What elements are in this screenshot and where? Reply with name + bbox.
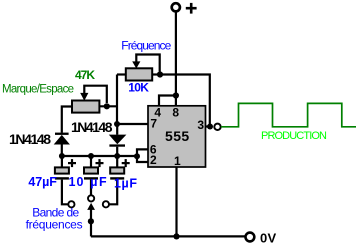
capacitor C1 47uF <box>61 156 63 168</box>
wiper loop wire 47K <box>84 86 107 103</box>
wire pin 7 <box>117 123 148 125</box>
capacitor C2 10uF <box>90 156 92 168</box>
wire 47K right lead <box>99 105 117 107</box>
wire 10K left branch down <box>116 75 118 125</box>
wire pin 3 stub <box>206 125 211 127</box>
svg-text:8: 8 <box>172 106 179 120</box>
wire pin 4 loop <box>159 96 176 107</box>
wire capacitor rail <box>62 155 137 157</box>
Vcc rail wire <box>175 12 177 107</box>
svg-text:fréquences: fréquences <box>26 217 83 231</box>
wiper arrow 47K <box>80 93 88 101</box>
svg-text:47µF: 47µF <box>28 175 57 189</box>
power terminal + <box>172 3 180 11</box>
junction dot cap C3 <box>114 153 120 159</box>
output terminal <box>214 124 220 130</box>
svg-text:3: 3 <box>197 118 204 132</box>
svg-text:10K: 10K <box>128 81 149 95</box>
junction dot cap C2 <box>88 153 94 159</box>
svg-text:0V: 0V <box>260 231 277 246</box>
junction dot pins 2-6 <box>134 153 140 159</box>
junction dot selector <box>88 218 94 224</box>
output waveform <box>221 103 356 126</box>
wire 10K left lead <box>117 73 126 75</box>
svg-text:47K: 47K <box>75 68 95 82</box>
plus sign C3 <box>122 159 130 167</box>
junction dot rail/pin4 <box>173 92 179 98</box>
wire pin 1 <box>175 167 177 236</box>
selector contact circle B <box>88 195 94 201</box>
svg-text:1: 1 <box>174 154 181 168</box>
0V terminal <box>246 233 255 242</box>
selector contact circle C <box>103 201 109 207</box>
wire 10K to pin 3 <box>160 75 210 127</box>
wire pin 6 / pin 2 link <box>137 149 148 162</box>
svg-text:555: 555 <box>165 128 189 144</box>
wiper arrow 10K <box>132 61 140 68</box>
capacitor C3 1uF <box>116 156 118 168</box>
svg-text:10: 10 <box>69 175 84 189</box>
svg-text:7: 7 <box>150 117 157 131</box>
diode D2 1N4148 <box>116 124 118 135</box>
plus sign C1 <box>68 159 76 167</box>
junction dot pin7 node <box>114 121 120 127</box>
svg-text:Fréquence: Fréquence <box>121 39 171 53</box>
potentiometer P2 10K body <box>126 68 152 80</box>
junction dot pin 1 / 0V <box>173 233 179 239</box>
selector contact circle A <box>68 201 74 207</box>
wire 10K right lead <box>152 73 160 75</box>
svg-text:2: 2 <box>150 153 157 167</box>
svg-text:1µF: 1µF <box>114 176 137 190</box>
svg-text:PRODUCTION: PRODUCTION <box>261 130 327 142</box>
junction dot cap C1 <box>59 153 65 159</box>
op-amp timer IC U1 555 <box>148 106 206 167</box>
junction dot 10K wiper <box>157 71 163 77</box>
svg-text:µF: µF <box>90 175 107 189</box>
svg-text:1N4148: 1N4148 <box>71 119 113 135</box>
diode D1 1N4148 <box>55 133 69 135</box>
junction dot pin 3 <box>207 124 213 130</box>
wiper loop wire 10K <box>136 55 159 72</box>
svg-text:1N4148: 1N4148 <box>9 131 51 147</box>
wire 0V rail <box>91 235 245 237</box>
potentiometer P1 47K body <box>72 101 99 113</box>
junction dot 47K wiper <box>104 103 110 109</box>
plus sign C2 <box>96 159 104 167</box>
wire 47K left lead <box>62 107 72 133</box>
plus sign label <box>186 3 197 14</box>
selector wiper arrow <box>87 203 95 210</box>
svg-text:Marque/Espace: Marque/Espace <box>2 83 74 95</box>
